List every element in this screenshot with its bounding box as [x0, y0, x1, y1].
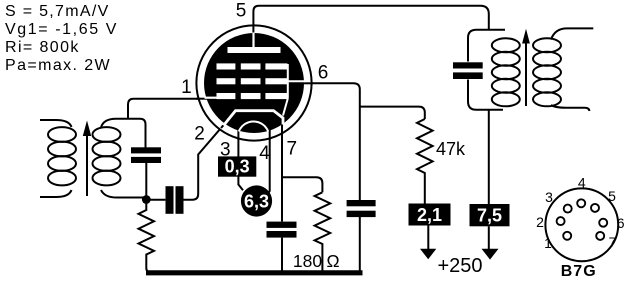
- svg-text:7,5: 7,5: [477, 206, 502, 226]
- output transformer secondary winding: [533, 38, 561, 106]
- output transformer primary winding: [492, 38, 520, 106]
- svg-text:4: 4: [259, 143, 270, 164]
- capacitor coupling: [166, 186, 184, 214]
- svg-text:Pa=max. 2W: Pa=max. 2W: [5, 57, 111, 74]
- wire: secondary top lead: [551, 28, 593, 39]
- svg-text:47k: 47k: [436, 139, 466, 159]
- tube grid row 3: [217, 93, 288, 99]
- input transformer secondary winding: [93, 127, 121, 185]
- redraw wires crossing tube gap: [196, 25, 313, 140]
- B7G pin 4: [577, 199, 585, 207]
- output transformer primary loop: [468, 30, 505, 110]
- resistor grid leak: [139, 202, 155, 273]
- tube grid row 1: [217, 63, 288, 69]
- pin 1 inner stub: [205, 97, 218, 99]
- wire: pin 6 screen to the right: [303, 83, 360, 200]
- supply arrow under 7,5: [482, 226, 499, 259]
- wire: tuning cap bottom to junction: [145, 163, 147, 196]
- supply arrow under 2,1: [420, 226, 436, 260]
- pin 5 inner stub: [252, 33, 254, 49]
- tube cathode chevron: [224, 111, 284, 126]
- wire: secondary top lead to tuning cap: [101, 119, 146, 148]
- resistor 180 ohm: [315, 192, 331, 271]
- wire: filament leg pin 3: [238, 129, 243, 190]
- B7G pin 1: [563, 232, 571, 240]
- box 2,1: [409, 204, 451, 226]
- wire: screen cap to rail: [359, 217, 361, 271]
- svg-text:+250: +250: [438, 255, 483, 277]
- resistor 47k: [417, 119, 433, 204]
- tube heater arc: [239, 121, 268, 131]
- tube anode bar (pin 5): [228, 47, 281, 53]
- svg-text:B7G: B7G: [561, 263, 597, 280]
- svg-text:Ω: Ω: [326, 251, 339, 271]
- svg-text:1: 1: [544, 235, 552, 251]
- B7G socket outline: [545, 188, 618, 261]
- B7G pin 6: [599, 219, 607, 227]
- capacitor tuning (input): [131, 147, 161, 163]
- box 0,3 (heater current): [218, 156, 256, 176]
- capacitor cathode bypass (pin 7): [267, 222, 297, 238]
- svg-text:180: 180: [293, 251, 322, 271]
- B7G pin 3: [564, 205, 572, 213]
- B7G pin 2: [557, 217, 565, 225]
- B7G pin 5: [591, 204, 599, 212]
- tube grid row 2: [217, 78, 288, 84]
- wire: secondary bottom lead to junction: [101, 190, 144, 198]
- svg-text:Ri= 800k: Ri= 800k: [5, 39, 80, 56]
- wire: secondary bottom lead: [551, 105, 589, 111]
- input transformer primary winding: [48, 127, 76, 185]
- capacitor across output primary: [453, 62, 483, 79]
- node junction dot: [142, 195, 151, 204]
- svg-text:0,3: 0,3: [225, 157, 250, 177]
- wire: screen branch to 47k: [360, 107, 425, 119]
- circle 6,3 (heater voltage): [241, 185, 272, 216]
- svg-text:4: 4: [578, 175, 586, 191]
- svg-text:2: 2: [536, 214, 544, 230]
- svg-text:3: 3: [545, 189, 553, 205]
- wire: output primary to 7,5 box: [488, 110, 490, 204]
- svg-text:5: 5: [608, 188, 616, 204]
- output transformer core arrow: [522, 29, 530, 106]
- svg-text:6: 6: [318, 63, 329, 84]
- ground rail (bottom bus): [146, 270, 363, 275]
- wire: pin 5 anode to output transformer top: [253, 6, 488, 34]
- capacitor screen bypass: [347, 200, 376, 217]
- tube grid bracket to pin 6: [283, 64, 305, 116]
- svg-text:6,3: 6,3: [244, 192, 269, 212]
- input transformer primary bottom lead: [40, 190, 72, 197]
- wire: junction to coupling cap: [149, 199, 165, 201]
- tube envelope black disc: [204, 33, 304, 133]
- input transformer primary top lead: [40, 120, 72, 127]
- svg-text:S = 5,7mA/V: S = 5,7mA/V: [5, 3, 110, 20]
- box 7,5: [470, 204, 510, 226]
- B7G pin 7: [596, 232, 604, 240]
- svg-text:2,1: 2,1: [417, 205, 442, 225]
- svg-text:7: 7: [287, 139, 298, 160]
- svg-text:Vg1= -1,65 V: Vg1= -1,65 V: [5, 21, 118, 38]
- svg-text:1: 1: [181, 77, 192, 98]
- wire: cathode pin 7 down: [281, 123, 283, 222]
- input transformer core arrow: [83, 121, 91, 197]
- wire: grid feed up to pin 1: [128, 99, 207, 120]
- wire: coupling cap to pin 2 (grid): [184, 121, 228, 200]
- svg-text:5: 5: [236, 1, 247, 22]
- wire: cathode cap to rail: [281, 238, 283, 271]
- svg-text:7: 7: [609, 234, 617, 250]
- tube outer circle: [196, 25, 311, 140]
- wire: pin 7 branch to 180 ohm: [282, 177, 322, 192]
- svg-text:2: 2: [194, 124, 205, 145]
- wire: filament leg pin 4: [267, 129, 269, 195]
- svg-text:6: 6: [617, 215, 625, 231]
